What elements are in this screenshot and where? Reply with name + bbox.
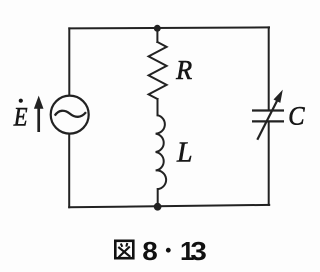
svg-text:8: 8 <box>142 236 158 266</box>
svg-text:3: 3 <box>190 236 207 266</box>
svg-text:R: R <box>175 55 192 85</box>
svg-text:L: L <box>176 137 192 169</box>
svg-text:E: E <box>13 102 28 131</box>
svg-text:C: C <box>288 102 305 131</box>
